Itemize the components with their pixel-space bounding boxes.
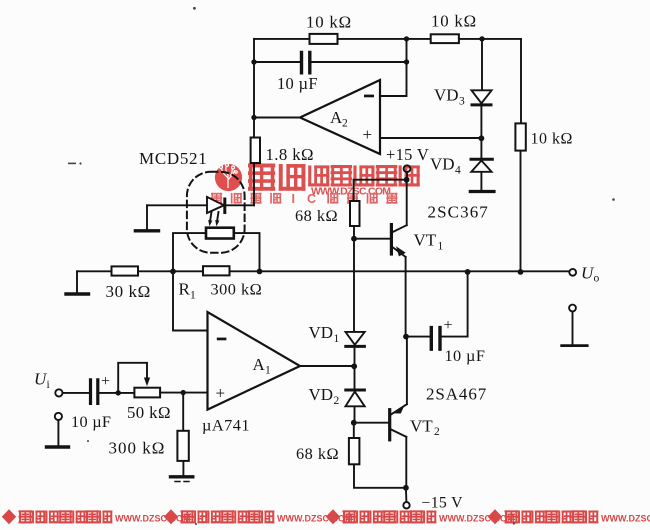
wire A2 inverting input <box>381 39 407 96</box>
terminal input ground <box>47 413 69 447</box>
scan speck right <box>87 7 615 525</box>
label A2 minus <box>364 95 374 98</box>
svg-text:300 kΩ: 300 kΩ <box>211 280 263 299</box>
label VD2 <box>309 385 340 407</box>
junction node cap row right <box>404 59 409 64</box>
resistor 300k input <box>177 431 188 461</box>
label 68k lower <box>296 444 339 463</box>
svg-text:1: 1 <box>438 241 444 253</box>
wire right 10k branch <box>520 39 523 272</box>
resistor 68k upper <box>350 201 360 239</box>
junction node VT2 base / 68k <box>351 420 357 426</box>
capacitor C1 10uF top <box>302 53 310 73</box>
label 2SA467 <box>426 385 487 404</box>
label plus input cap <box>101 373 110 390</box>
capacitor 10uF input plates <box>91 380 98 404</box>
label uA741 <box>202 416 250 435</box>
wire LED row <box>147 204 254 206</box>
svg-text:2: 2 <box>434 426 440 438</box>
svg-text:50 kΩ: 50 kΩ <box>127 403 171 422</box>
wire lower 68k branch <box>354 423 406 488</box>
svg-text:10 µF: 10 µF <box>71 412 111 431</box>
power bar below VD4 <box>470 190 494 193</box>
svg-text:2SC367: 2SC367 <box>428 203 489 222</box>
svg-text:10 kΩ: 10 kΩ <box>431 12 477 31</box>
svg-text:WWW.DZSC.COM: WWW.DZSC.COM <box>601 513 650 523</box>
wire top feedback rail <box>254 38 521 40</box>
wire A2 output to left node <box>254 117 300 119</box>
label 300k R1 <box>211 280 263 299</box>
junction node VT1 base / 68k <box>351 236 357 242</box>
svg-text:VD: VD <box>434 86 459 105</box>
terminal ground right <box>562 305 588 346</box>
resistor 1.8k <box>251 138 260 206</box>
terminal Ui input <box>55 389 89 396</box>
transistor VT2 <box>390 337 407 488</box>
junction node input cap / pot wiper <box>116 390 121 395</box>
wire VD3 branch vertical <box>480 39 483 190</box>
watermark logo circle <box>215 164 242 192</box>
junction node top rail / A2 inv branch <box>404 36 409 41</box>
svg-text:68 kΩ: 68 kΩ <box>296 444 339 463</box>
svg-text:68 kΩ: 68 kΩ <box>295 206 338 225</box>
svg-text:300 kΩ: 300 kΩ <box>109 439 166 458</box>
label A1 <box>253 355 272 377</box>
svg-text:10 µF: 10 µF <box>445 346 486 365</box>
svg-text:1: 1 <box>190 290 196 302</box>
op-amp A2 <box>300 80 380 154</box>
label 300k input <box>109 439 166 458</box>
label R1 <box>179 280 197 302</box>
wire capacitor row <box>254 61 407 63</box>
junction node emitter line / cap <box>403 334 409 340</box>
op-amp A1 <box>208 312 301 410</box>
label A1 plus <box>216 384 226 403</box>
svg-text:VD: VD <box>309 385 334 404</box>
junction node rail / R1 left <box>170 269 176 275</box>
svg-text:3: 3 <box>459 96 465 108</box>
resistor 10k right vertical <box>515 123 525 150</box>
label 30k <box>106 282 151 301</box>
junction node VD3-VD4 / A2 plus <box>479 135 485 141</box>
wire VD1 VD2 chain <box>354 348 356 423</box>
label Uo <box>581 264 600 285</box>
label 10k right <box>531 131 573 148</box>
label MCD521 <box>139 149 207 168</box>
junction node rail / output cap <box>465 269 471 275</box>
label A2 plus <box>363 125 373 144</box>
svg-text:R: R <box>179 280 191 299</box>
photoresistor of MCD521 <box>206 228 234 239</box>
label 50k <box>127 403 171 422</box>
svg-text:30 kΩ: 30 kΩ <box>106 282 151 301</box>
label 10k top-left <box>306 13 352 32</box>
svg-text:1: 1 <box>334 333 340 345</box>
svg-text:10 µF: 10 µF <box>277 74 318 93</box>
scan speck left <box>68 162 82 164</box>
wire output rail <box>77 270 569 272</box>
watermark text dianzishichangwang <box>308 165 419 187</box>
svg-text:MCD521: MCD521 <box>139 149 207 168</box>
label 1.8k <box>266 145 314 164</box>
label 10k top-right <box>431 12 477 31</box>
svg-text:WWW.DZSC.COM: WWW.DZSC.COM <box>439 513 515 523</box>
terminal +15V <box>404 165 411 179</box>
resistor 30k <box>112 266 139 275</box>
label VD4 <box>430 155 461 177</box>
svg-text:+15 V: +15 V <box>386 145 429 164</box>
resistor 10k top-left <box>310 34 338 44</box>
label A2 <box>330 108 348 130</box>
svg-text:1.8 kΩ: 1.8 kΩ <box>266 145 314 164</box>
watermark text url <box>311 186 391 198</box>
terminal Uo <box>569 269 576 276</box>
LED of optocoupler <box>207 197 225 213</box>
svg-text:+: + <box>101 373 110 390</box>
diode VD2 <box>346 390 365 406</box>
junction node pot / 300k <box>181 390 186 395</box>
diode VD3 <box>472 90 492 105</box>
ground far left <box>66 271 89 294</box>
label 68k upper <box>295 206 338 225</box>
svg-text:A: A <box>253 355 266 374</box>
junction node -15V <box>403 485 409 491</box>
junction node A1 output / diode chain <box>351 363 357 369</box>
junction node +15V branch <box>404 177 410 183</box>
ground at LED <box>135 205 158 231</box>
resistor R1 300k <box>203 266 230 275</box>
watermark text slogan <box>211 192 398 206</box>
wire VT2 base <box>354 422 389 424</box>
svg-text:1: 1 <box>265 365 271 377</box>
wire VT1 base <box>354 238 390 240</box>
svg-text:IC: IC <box>292 192 329 206</box>
optocoupler MCD521 dashed capsule <box>187 172 245 253</box>
junction node cap row left <box>251 59 256 64</box>
svg-text:10 kΩ: 10 kΩ <box>531 131 573 148</box>
wire left vertical from top rail to A2 output node and 1.8k <box>253 39 255 138</box>
label VT2 <box>410 417 440 439</box>
svg-text:+: + <box>444 317 453 334</box>
label +15V <box>386 145 429 164</box>
svg-text:2SA467: 2SA467 <box>426 385 487 404</box>
svg-text:+: + <box>216 384 226 403</box>
svg-text:10 kΩ: 10 kΩ <box>306 13 352 32</box>
label plus output cap <box>444 317 453 334</box>
label 10uF top <box>277 74 318 93</box>
diode VD1 <box>346 332 365 347</box>
label VT1 <box>414 231 444 253</box>
LED light arrows <box>208 212 219 226</box>
wire bias chain down to VD1 <box>353 239 355 332</box>
wire pot wiper loop <box>118 363 150 393</box>
junction node top rail / VD3 branch <box>479 36 484 41</box>
svg-text:µA741: µA741 <box>202 416 250 435</box>
svg-text:2: 2 <box>334 395 340 407</box>
diode VD4 <box>471 159 492 172</box>
label Ui <box>34 370 50 392</box>
wire 300k input branch <box>182 393 184 475</box>
label A1 minus <box>217 338 227 341</box>
junction node rail / 10k branch <box>518 269 524 275</box>
transistor VT1 <box>391 180 406 337</box>
svg-text:VD: VD <box>309 323 334 342</box>
resistor 68k lower <box>349 438 360 464</box>
junction node A2 output <box>251 115 256 120</box>
wire R1 node to A1 inverting input <box>173 271 207 330</box>
label -15V <box>422 495 464 512</box>
wire A1 output <box>300 365 354 367</box>
terminal -15V <box>403 488 409 509</box>
svg-text:o: o <box>594 273 600 285</box>
resistor 10k top-right <box>431 34 459 43</box>
wire A2 noninverting input <box>381 137 483 139</box>
wire photoresistor left leg <box>173 233 206 271</box>
label VD1 <box>309 323 340 345</box>
svg-text:4: 4 <box>455 165 461 177</box>
watermark bottom banner <box>2 509 650 524</box>
wire +15V to 68k <box>354 180 407 201</box>
capacitor 10uF output wires <box>406 272 468 337</box>
svg-text:WWW.DZSC.COM: WWW.DZSC.COM <box>277 513 353 523</box>
capacitor C 10uF output plates <box>431 328 440 350</box>
svg-text:VT: VT <box>414 231 437 250</box>
wire pot to A1 plus input <box>160 392 207 394</box>
svg-text:i: i <box>47 379 50 391</box>
svg-text:−15 V: −15 V <box>422 495 464 512</box>
wire input cap to pot <box>100 392 135 394</box>
label 10uF output <box>445 346 486 365</box>
potentiometer 50k <box>134 388 160 398</box>
watermark text weiku <box>248 164 305 191</box>
label VD3 <box>434 86 465 108</box>
junction node rail / R1 right <box>257 269 263 275</box>
label 2SC367 <box>428 203 489 222</box>
svg-text:2: 2 <box>342 118 348 130</box>
svg-text:VD: VD <box>430 155 455 174</box>
label 10uF input <box>71 412 111 431</box>
svg-text:WWW.DZSC.COM: WWW.DZSC.COM <box>115 513 191 523</box>
svg-text:VT: VT <box>410 417 433 436</box>
wire photoresistor right leg <box>234 233 260 271</box>
ground below 300k <box>171 477 193 482</box>
svg-text:+: + <box>363 125 373 144</box>
